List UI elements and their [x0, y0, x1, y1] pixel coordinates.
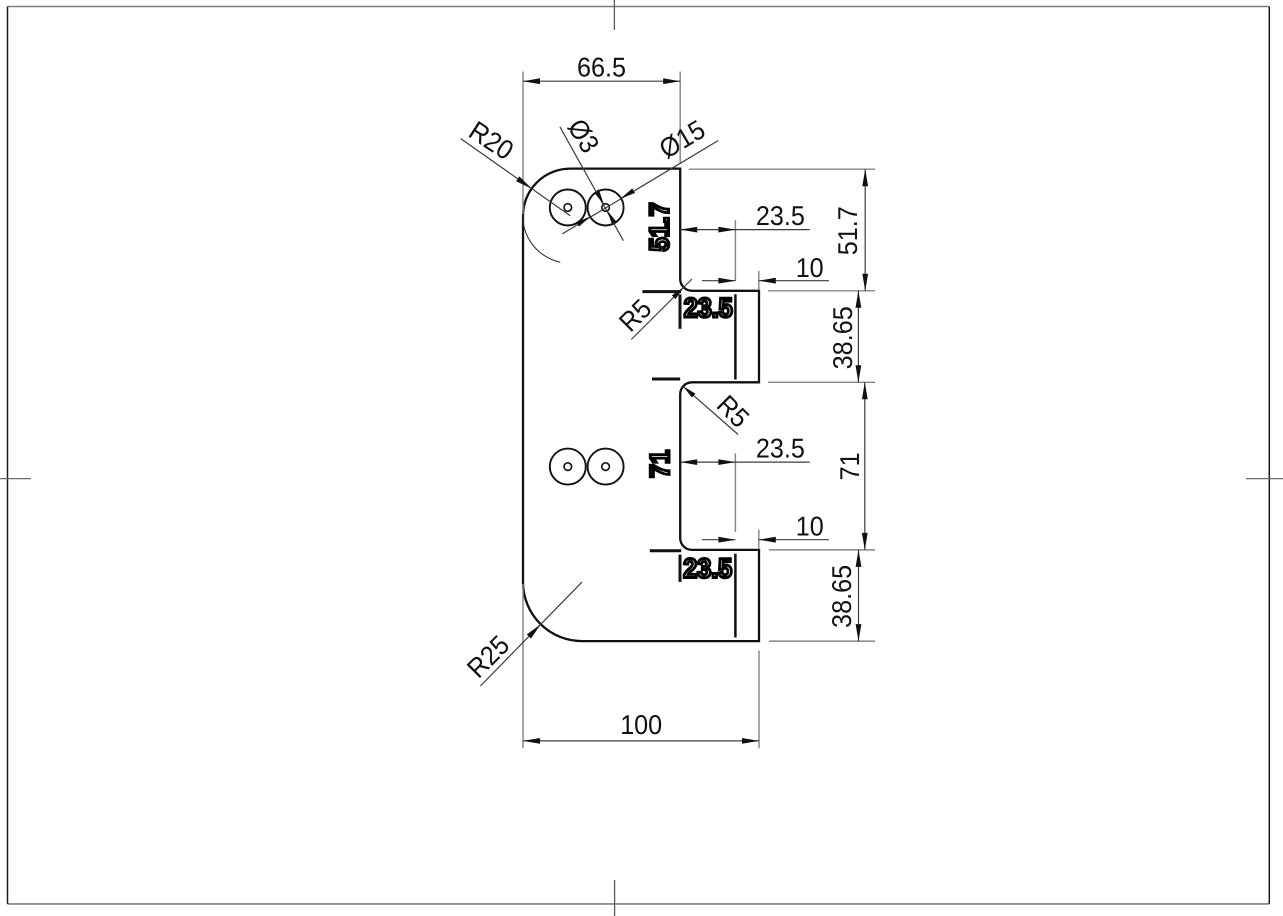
hole H1 inner circle D3	[564, 204, 572, 212]
svg-text:71: 71	[644, 450, 675, 478]
dimension 10 lower line left part	[702, 539, 736, 541]
dimension 23.5 mid extension line	[734, 453, 736, 532]
svg-text:23.5: 23.5	[683, 552, 732, 583]
dimension 38.65 lower line	[858, 550, 860, 641]
svg-text:10: 10	[796, 252, 824, 283]
bend mark mid horizontal	[652, 378, 680, 381]
dimension 100 extension line right	[758, 650, 760, 748]
part outline	[523, 169, 759, 641]
svg-text:23.5: 23.5	[756, 433, 805, 464]
dimension 100 line	[523, 740, 759, 742]
extension line y1 right	[768, 290, 875, 292]
dimension 10 upper line right part	[759, 280, 829, 282]
dimension 10 lower line right part	[759, 539, 829, 541]
hole H1 outer circle D15	[550, 190, 586, 226]
D15 leader line	[562, 141, 718, 234]
dimension 10 upper extension line	[758, 271, 760, 290]
hole H3 outer circle D15	[550, 449, 586, 485]
dimension 23.5 upper extension line	[734, 220, 736, 281]
bend mark lower-left vertical	[679, 555, 682, 582]
svg-text:51.7: 51.7	[643, 202, 674, 251]
svg-text:23.5: 23.5	[756, 200, 805, 231]
extension line y3 right	[769, 549, 875, 551]
svg-text:38.65: 38.65	[827, 306, 858, 369]
bend mark lower-left horizontal	[650, 549, 681, 552]
dimension 100 extension line left	[522, 584, 524, 748]
hole H2 outer circle D15	[588, 190, 624, 226]
svg-text:66.5: 66.5	[577, 52, 626, 83]
dimension 51.7 line	[864, 169, 866, 291]
R20 leader line	[461, 139, 571, 216]
svg-text:23.5: 23.5	[684, 292, 733, 323]
hole H3 inner circle D3	[564, 463, 572, 471]
hole H2 inner circle D3	[602, 204, 610, 212]
dimension 10 lower extension line	[758, 530, 760, 550]
dimension 66.5 line	[523, 80, 680, 82]
extension line y2 right	[768, 381, 875, 383]
R5 upper leader line	[631, 279, 692, 340]
R5 lower leader line	[683, 386, 738, 434]
svg-text:38.65: 38.65	[826, 565, 857, 628]
dimension 66.5 extension line right	[679, 72, 681, 165]
dimension 38.65 upper line	[857, 291, 859, 383]
extension line top right	[689, 168, 875, 170]
svg-text:71: 71	[834, 452, 865, 480]
D3 leader line	[560, 127, 624, 241]
hole H4 outer circle D15	[588, 449, 624, 485]
dimension 23.5 mid line	[680, 461, 810, 463]
svg-text:100: 100	[620, 709, 662, 740]
bend mark upper-left horizontal	[642, 290, 681, 293]
R25 leader line	[480, 582, 582, 686]
dimension 23.5 upper line	[680, 229, 810, 231]
bend line upper tab	[734, 294, 737, 379]
hole H4 inner circle D3	[602, 463, 610, 471]
extension line bottom right	[769, 640, 875, 642]
bend line lower tab	[734, 554, 737, 638]
svg-text:51.7: 51.7	[832, 206, 863, 255]
dimension 10 upper line left part	[702, 280, 736, 282]
bend mark upper-left vertical	[679, 294, 682, 328]
dimension 71 line	[864, 382, 866, 550]
R20 corner arc extension	[523, 205, 561, 262]
dimension 66.5 extension line left	[522, 72, 524, 215]
svg-text:10: 10	[796, 511, 824, 542]
